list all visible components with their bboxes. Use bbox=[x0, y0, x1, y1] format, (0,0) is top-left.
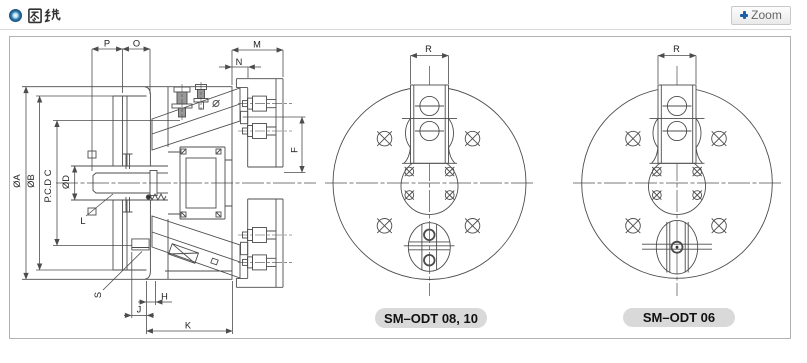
svg-text:H: H bbox=[161, 292, 168, 302]
svg-text:K: K bbox=[185, 321, 192, 331]
svg-text:F: F bbox=[290, 147, 300, 153]
svg-text:M: M bbox=[253, 40, 261, 50]
svg-text:O: O bbox=[133, 39, 140, 49]
svg-text:L: L bbox=[80, 216, 85, 226]
svg-text:S: S bbox=[93, 292, 103, 298]
svg-text:ØD: ØD bbox=[61, 175, 71, 189]
svg-text:R: R bbox=[673, 44, 680, 54]
svg-text:P: P bbox=[104, 39, 110, 49]
svg-text:N: N bbox=[236, 57, 243, 67]
svg-text:ØB: ØB bbox=[26, 174, 36, 187]
svg-text:P.C.D C: P.C.D C bbox=[43, 169, 53, 202]
svg-text:ØA: ØA bbox=[12, 173, 22, 187]
svg-text:J: J bbox=[137, 305, 142, 315]
svg-text:R: R bbox=[425, 44, 432, 54]
